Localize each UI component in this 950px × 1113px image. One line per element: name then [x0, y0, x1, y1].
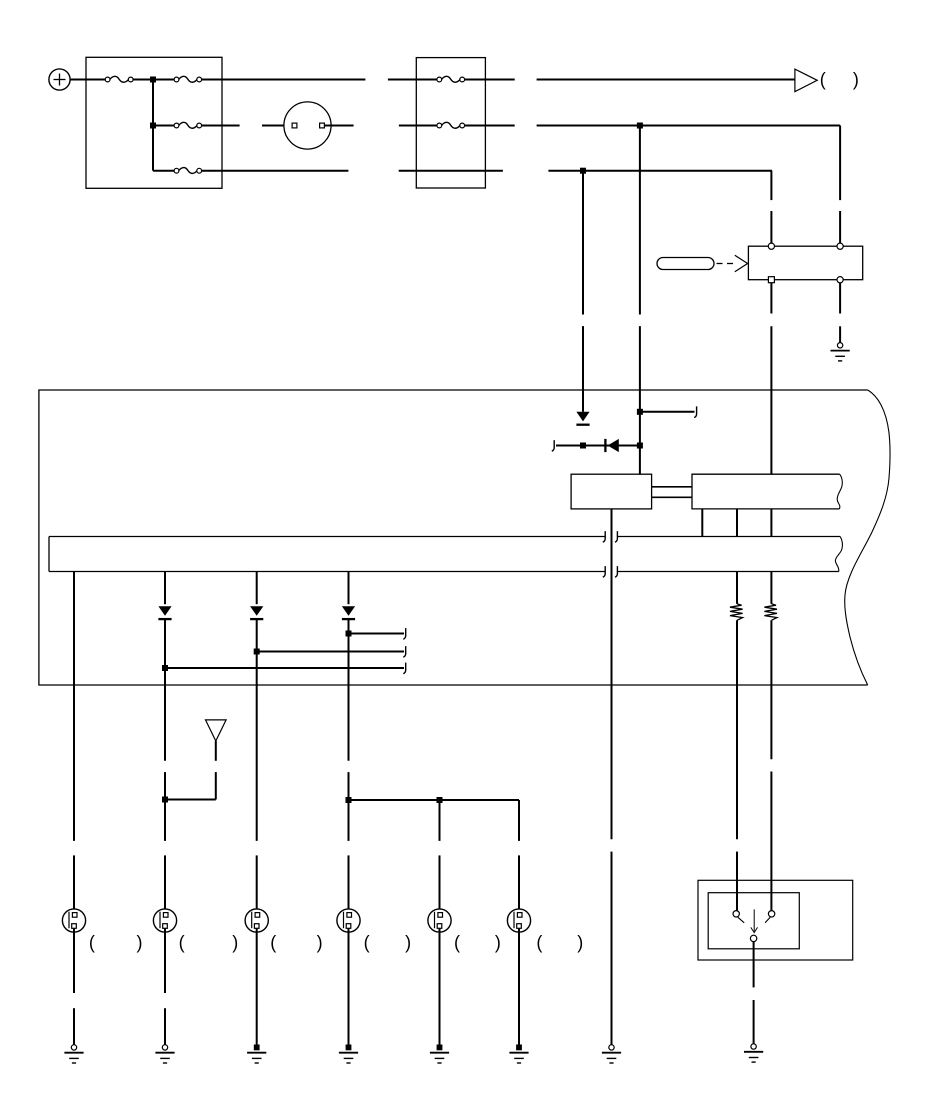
junction node A — [150, 77, 156, 83]
antenna — [206, 720, 227, 741]
callout capsule — [657, 258, 714, 270]
wire row3 to relay — [548, 170, 772, 172]
diode D1 — [576, 412, 589, 425]
wire antenna lead — [165, 741, 216, 800]
wire switch to ground — [753, 942, 755, 1044]
wire below plug 1 — [73, 928, 75, 1044]
fuse F3 — [174, 122, 202, 128]
wire row1 to output arrow — [537, 79, 795, 81]
resistor R1 — [730, 604, 743, 621]
fuse box (dash fuse box) — [86, 57, 222, 188]
fuse F4 — [174, 168, 202, 174]
connector plug 4 — [337, 909, 360, 932]
relay pin 3 — [768, 277, 774, 283]
junction node H — [637, 443, 643, 449]
svg-text:(: ( — [536, 932, 542, 952]
wire below plug 2 — [164, 928, 166, 1044]
relay pin 4 — [837, 277, 843, 283]
wire below plug 6 — [518, 928, 520, 1044]
switch common terminal — [750, 935, 756, 941]
wire relay switch feed — [770, 171, 772, 244]
wire row2 to fuse box 2 — [399, 125, 437, 127]
label parentheses row1 — [820, 69, 859, 89]
logic block 2 — [692, 474, 840, 509]
terminal tick K — [403, 628, 405, 639]
wire column 3 lower — [256, 620, 258, 913]
wire stub from column 3 — [257, 651, 404, 653]
bus rail torn edge — [835, 537, 842, 572]
ground G6 — [509, 1045, 528, 1064]
ground relay — [831, 343, 850, 361]
svg-text:): ) — [232, 932, 238, 952]
svg-text:): ) — [577, 932, 583, 952]
vertical bus wire in fuse box — [152, 80, 154, 171]
svg-text:(: ( — [270, 932, 276, 952]
wire fuse F1 to junction — [133, 79, 151, 81]
wire relay coil feed — [839, 126, 841, 244]
svg-text:): ) — [405, 932, 411, 952]
link bus between blocks — [652, 487, 692, 498]
wire below plug 4 — [348, 928, 350, 1044]
wire row1 to connector — [202, 79, 366, 81]
connector plug 5 — [428, 909, 451, 932]
svg-text:(: ( — [89, 932, 95, 952]
wire row2 to relay — [537, 125, 841, 127]
wire column 5 lower — [439, 855, 441, 912]
junction node M — [346, 797, 352, 803]
wire row2 after fuse F6 — [465, 125, 515, 127]
control unit box — [39, 390, 868, 685]
wire row1 after fuse F5 — [465, 79, 515, 81]
junction node L — [162, 797, 168, 803]
ignition switch connector — [284, 102, 331, 149]
svg-text:): ) — [137, 932, 143, 952]
wire column 1 — [73, 572, 75, 913]
wire block2 pin c — [770, 509, 772, 537]
switch blade contacts — [738, 917, 770, 923]
fuse F1 — [105, 76, 133, 82]
wire junction to fuse F2 — [155, 79, 174, 81]
switch terminal A — [733, 911, 739, 917]
wire block2 pin b — [736, 509, 738, 537]
wire row1 connector to fuse box 2 — [388, 79, 437, 81]
ground G4 — [339, 1045, 358, 1064]
wire junction to fuse F4 — [153, 170, 174, 172]
junction node C — [637, 123, 643, 129]
junction node D — [580, 168, 586, 174]
ground G5 — [430, 1045, 449, 1064]
relay pin 2 — [837, 243, 843, 249]
wire block1 output — [611, 509, 613, 685]
wire junction to fuse F3 — [155, 125, 174, 127]
wire column 7 — [611, 524, 613, 583]
terminal tick J — [403, 646, 405, 657]
ground G3 — [247, 1045, 266, 1064]
fuse F5 — [437, 76, 465, 82]
logic block 2 torn edge — [837, 474, 842, 509]
wire column 2 lower — [164, 620, 166, 913]
svg-text:(: ( — [364, 932, 370, 952]
connector plug 2 — [153, 909, 176, 932]
junction node G — [580, 443, 586, 449]
junction node N — [437, 797, 443, 803]
wire row3 through fuse box 2 — [399, 170, 503, 172]
wire below plug 3 — [256, 928, 258, 1044]
wire column 4 upper — [348, 572, 350, 605]
wire stub from column 2 — [165, 667, 404, 669]
wire below plug 5 — [439, 928, 441, 1044]
logic block 1 — [571, 474, 652, 509]
resistor R2 — [764, 604, 777, 621]
wire column 7 lower — [611, 685, 613, 1045]
diode D4 — [250, 606, 263, 619]
relay (condenser fan relay) — [748, 246, 862, 280]
ground G2 — [155, 1045, 174, 1063]
wire relay pin4 to ground — [839, 283, 841, 343]
dashed pointer arrow — [717, 255, 748, 271]
wire row2 to in-line connector — [202, 125, 240, 127]
wire relay pin3 down — [770, 283, 772, 474]
wire column 4 lower — [348, 620, 350, 913]
terminal tick E — [694, 406, 696, 417]
wire branch to columns 5 and 6 — [349, 800, 520, 841]
relay pin 1 — [768, 243, 774, 249]
wire resistor column left — [736, 572, 738, 911]
connector plug 1 — [62, 909, 85, 932]
diode D2 — [605, 439, 618, 452]
connector bus rail — [49, 537, 840, 572]
svg-text:(: ( — [454, 932, 460, 952]
wire column 2 upper — [164, 572, 166, 605]
wire block2 pin a — [701, 509, 703, 537]
connector plug 3 — [245, 909, 268, 932]
terminal tick F — [552, 440, 554, 451]
wire diode feed 1 — [582, 171, 584, 412]
wire stub from column 4 — [349, 633, 405, 635]
wire diode feed 2 — [639, 126, 641, 475]
switch actuator arrow — [751, 909, 758, 932]
ground G8 — [744, 1044, 763, 1062]
ground G7 — [602, 1045, 621, 1063]
ground G1 — [64, 1045, 83, 1063]
svg-text:): ) — [853, 69, 859, 89]
connector labels parentheses — [89, 932, 583, 952]
junction node E — [637, 409, 643, 415]
wire stub right of junction E — [640, 411, 695, 413]
wire resistor column right — [770, 572, 772, 911]
wire column 3 upper — [256, 572, 258, 605]
control unit torn edge — [845, 390, 890, 685]
junction node J — [254, 649, 260, 655]
terminal tick I — [403, 663, 405, 674]
diode D5 — [342, 606, 355, 619]
junction node K — [346, 631, 352, 637]
switch inner box — [708, 893, 799, 949]
connector plug 6 — [507, 909, 530, 932]
wire row3 long segment — [202, 170, 349, 172]
svg-text:(: ( — [820, 69, 826, 89]
junction node B — [150, 123, 156, 129]
wire diode line — [556, 445, 640, 447]
svg-text:): ) — [317, 932, 323, 952]
switch outer box — [698, 880, 853, 960]
svg-text:): ) — [495, 932, 501, 952]
svg-text:(: ( — [179, 932, 185, 952]
bus break marks — [603, 531, 618, 577]
switch terminal B — [768, 911, 774, 917]
junction node I — [162, 665, 168, 671]
diode D3 — [158, 606, 171, 619]
battery positive terminal — [49, 69, 70, 90]
fuse F6 — [437, 122, 465, 128]
wire row2 to ignition switch — [262, 125, 292, 127]
wire ignition switch out — [325, 125, 354, 127]
fuse F2 — [174, 76, 202, 82]
wire battery to fuse — [70, 79, 105, 81]
output arrow — [795, 69, 817, 92]
wire column 6 lower — [518, 855, 520, 912]
fuse box (under-dash relay box) — [416, 58, 485, 188]
